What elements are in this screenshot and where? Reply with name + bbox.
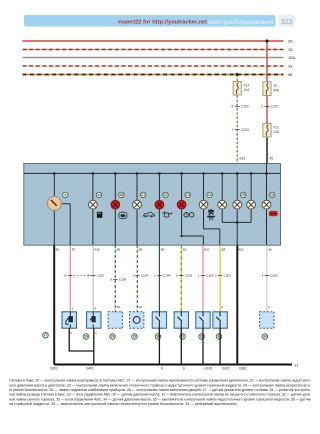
svg-text:электрооборудования: электрооборудования bbox=[208, 19, 274, 26]
svg-text:1: 1 bbox=[72, 307, 74, 311]
svg-text:15: 15 bbox=[288, 47, 293, 52]
svg-text:8: 8 bbox=[110, 278, 112, 282]
svg-text:ной лампы ручного тормоза; 33: ной лампы ручного тормоза; 33 — Блок упр… bbox=[9, 397, 312, 401]
svg-text:6: 6 bbox=[94, 307, 96, 311]
svg-text:ного давления масла в двигател: ного давления масла в двигателе; 23 — ко… bbox=[9, 383, 311, 387]
svg-text:18: 18 bbox=[120, 193, 124, 197]
svg-text:40А: 40А bbox=[273, 88, 280, 92]
svg-text:G401: G401 bbox=[86, 367, 94, 371]
svg-text:29: 29 bbox=[133, 335, 137, 339]
svg-text:В11: В11 bbox=[239, 248, 245, 252]
svg-text:40: 40 bbox=[139, 305, 143, 309]
svg-text:45: 45 bbox=[269, 157, 273, 161]
svg-text:В3: В3 bbox=[161, 248, 165, 252]
svg-text:6: 6 bbox=[231, 105, 233, 109]
svg-text:29: 29 bbox=[111, 335, 115, 339]
svg-text:4: 4 bbox=[95, 331, 97, 335]
svg-text:В2: В2 bbox=[56, 248, 60, 252]
svg-text:28: 28 bbox=[84, 335, 88, 339]
svg-text:1: 1 bbox=[198, 274, 200, 278]
svg-text:58: 58 bbox=[288, 72, 293, 77]
svg-text:24: 24 bbox=[208, 193, 212, 197]
svg-text:C202: C202 bbox=[241, 105, 249, 109]
svg-text:10А: 10А bbox=[273, 130, 280, 134]
svg-text:C203: C203 bbox=[270, 274, 278, 278]
svg-text:В1: В1 bbox=[183, 248, 187, 252]
svg-text:46: 46 bbox=[268, 248, 272, 252]
svg-text:В12: В12 bbox=[204, 248, 210, 252]
svg-text:6: 6 bbox=[183, 367, 185, 371]
svg-text:323: 323 bbox=[281, 19, 293, 26]
svg-text:30: 30 bbox=[288, 39, 293, 44]
svg-text:22: 22 bbox=[164, 193, 168, 197]
svg-text:Хк: Хк bbox=[288, 64, 293, 69]
svg-text:C202: C202 bbox=[97, 274, 105, 278]
svg-text:G301: G301 bbox=[239, 367, 247, 371]
svg-text:F12: F12 bbox=[244, 84, 250, 88]
svg-text:10А: 10А bbox=[244, 88, 251, 92]
svg-text:27: 27 bbox=[44, 333, 48, 337]
svg-text:G201: G201 bbox=[50, 367, 58, 371]
svg-text:F11: F11 bbox=[273, 126, 279, 130]
svg-text:14: 14 bbox=[97, 193, 101, 197]
svg-text:5: 5 bbox=[88, 274, 90, 278]
svg-text:C204: C204 bbox=[163, 274, 171, 278]
svg-text:ня тормозной жидкости; 33 — вы: ня тормозной жидкости; 33 — выключатель … bbox=[9, 402, 237, 406]
svg-text:25: 25 bbox=[241, 193, 245, 197]
svg-text:3: 3 bbox=[215, 274, 217, 278]
svg-text:C206: C206 bbox=[207, 274, 215, 278]
svg-text:expert22 for http://youtracker: expert22 for http://youtracker.net bbox=[118, 19, 207, 25]
svg-text:2: 2 bbox=[261, 105, 263, 109]
svg-text:4: 4 bbox=[268, 305, 270, 309]
svg-text:В6: В6 bbox=[117, 248, 121, 252]
svg-text:C204: C204 bbox=[141, 274, 149, 278]
svg-text:C206: C206 bbox=[119, 278, 127, 282]
svg-text:6: 6 bbox=[161, 367, 163, 371]
svg-text:21: 21 bbox=[141, 193, 145, 197]
svg-text:32: 32 bbox=[273, 84, 277, 88]
svg-text:В10: В10 bbox=[95, 248, 101, 252]
svg-text:3: 3 bbox=[132, 274, 134, 278]
svg-text:34: 34 bbox=[263, 335, 267, 339]
svg-text:го ремня безопасности; 25 — ла: го ремня безопасности; 25 — лампы подсве… bbox=[9, 388, 311, 392]
svg-text:26: 26 bbox=[270, 193, 274, 197]
svg-text:7: 7 bbox=[231, 128, 233, 132]
svg-text:1: 1 bbox=[154, 274, 156, 278]
svg-text:6: 6 bbox=[176, 274, 178, 278]
svg-text:3: 3 bbox=[221, 305, 223, 309]
svg-text:G102: G102 bbox=[205, 367, 213, 371]
svg-text:35: 35 bbox=[117, 305, 121, 309]
svg-text:В4: В4 bbox=[222, 248, 226, 252]
svg-text:23: 23 bbox=[186, 193, 190, 197]
svg-text:4: 4 bbox=[262, 274, 264, 278]
svg-text:В8: В8 bbox=[139, 248, 143, 252]
svg-text:G201: G201 bbox=[222, 367, 230, 371]
svg-text:15А: 15А bbox=[288, 55, 295, 60]
svg-text:4: 4 bbox=[64, 193, 66, 197]
svg-text:C203: C203 bbox=[224, 274, 232, 278]
svg-text:C203: C203 bbox=[241, 128, 249, 132]
svg-text:В7: В7 bbox=[72, 248, 76, 252]
svg-text:В12: В12 bbox=[240, 157, 246, 161]
svg-text:C207: C207 bbox=[271, 105, 279, 109]
svg-text:топлива в баке; 20 — контрольн: топлива в баке; 20 — контрольная лампа н… bbox=[9, 379, 311, 383]
svg-text:8: 8 bbox=[70, 331, 72, 335]
svg-text:14: 14 bbox=[63, 274, 67, 278]
svg-text:C203: C203 bbox=[185, 274, 193, 278]
svg-text:ной лампы резерва топлива в ба: ной лампы резерва топлива в баке; 29 — б… bbox=[9, 393, 311, 397]
svg-text:31: 31 bbox=[295, 363, 299, 367]
